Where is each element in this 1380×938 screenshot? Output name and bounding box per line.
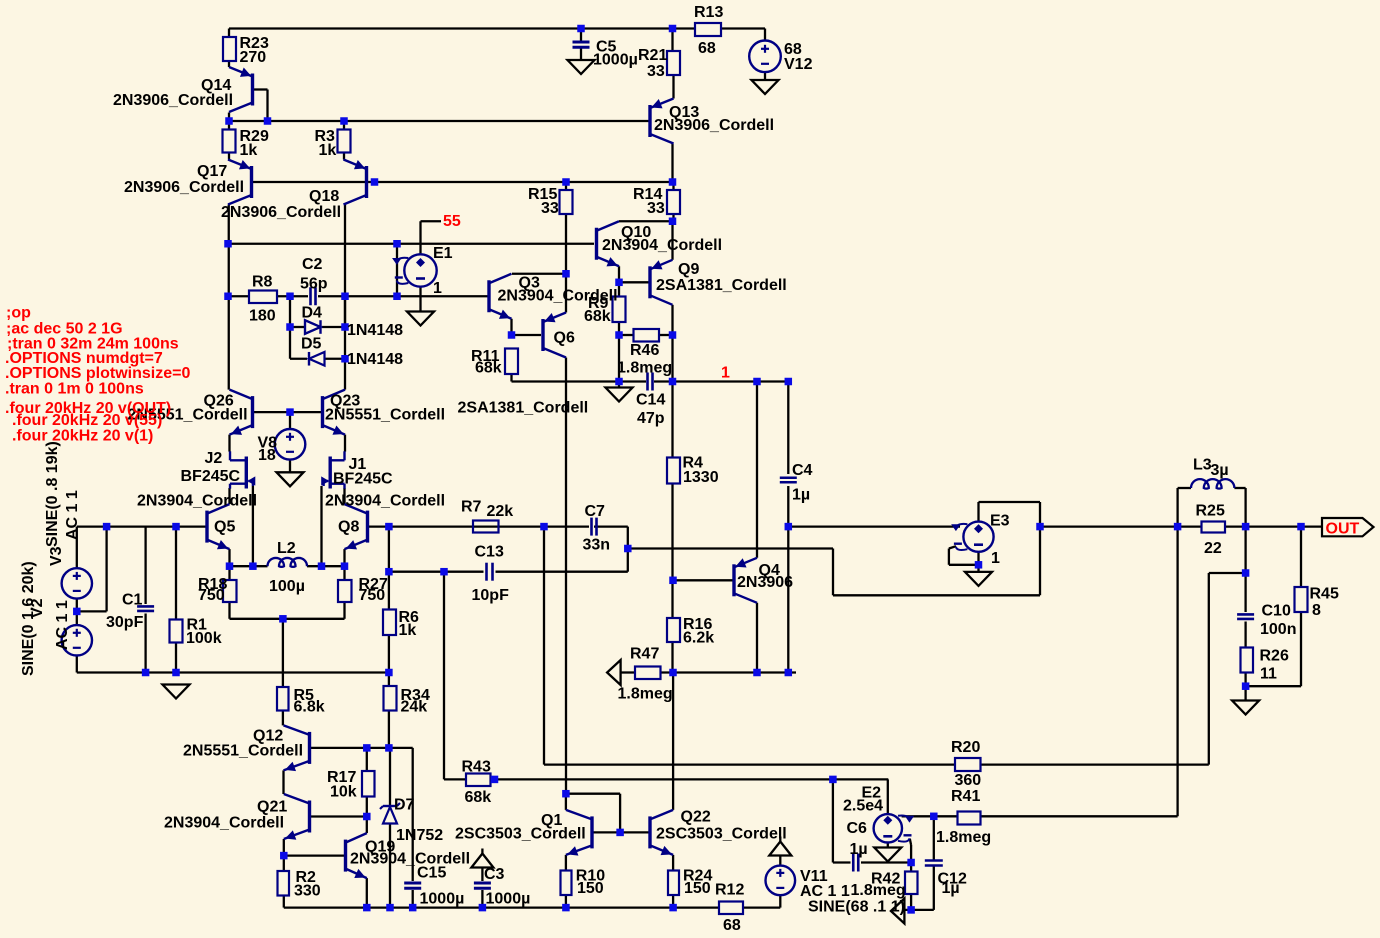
svg-text:BF245C: BF245C: [181, 468, 241, 485]
svg-text:2.5e4: 2.5e4: [843, 798, 883, 815]
svg-text:SINE(68 .1 1): SINE(68 .1 1): [808, 899, 905, 916]
svg-text:R20: R20: [951, 739, 980, 756]
svg-text:R41: R41: [951, 788, 980, 805]
svg-text:55: 55: [443, 213, 461, 230]
svg-text:33: 33: [647, 200, 665, 217]
svg-text:68: 68: [698, 40, 716, 57]
svg-text:1.8meg: 1.8meg: [618, 686, 673, 703]
svg-text:1: 1: [721, 365, 730, 382]
svg-text:1µ: 1µ: [850, 841, 868, 858]
svg-text:22k: 22k: [487, 503, 514, 520]
svg-text:.four 20kHz 20 v(55): .four 20kHz 20 v(55): [12, 412, 162, 429]
svg-text:33n: 33n: [583, 537, 611, 554]
svg-text:2N5551_Cordell: 2N5551_Cordell: [183, 743, 303, 760]
svg-text:68: 68: [723, 917, 741, 934]
svg-text:Q9: Q9: [678, 261, 699, 278]
svg-text:C10: C10: [1262, 603, 1291, 620]
svg-text:D7: D7: [394, 797, 415, 814]
svg-text:2N3904_Cordell: 2N3904_Cordell: [164, 815, 284, 832]
svg-text:R45: R45: [1310, 586, 1339, 603]
svg-text:1N4148: 1N4148: [347, 351, 403, 368]
svg-text:C13: C13: [475, 544, 504, 561]
svg-text:C3: C3: [484, 866, 505, 883]
svg-text:R12: R12: [715, 882, 744, 899]
svg-text:2N3904_Cordell: 2N3904_Cordell: [350, 851, 470, 868]
svg-text:68k: 68k: [475, 360, 502, 377]
svg-text:11: 11: [1260, 666, 1277, 683]
svg-text:47p: 47p: [637, 410, 665, 427]
svg-text:2N3904_Cordell: 2N3904_Cordell: [602, 237, 722, 254]
svg-text:10pF: 10pF: [472, 587, 510, 604]
svg-text:180: 180: [249, 308, 276, 325]
svg-text:33: 33: [541, 200, 559, 217]
svg-text:R21: R21: [638, 47, 667, 64]
svg-text:1µ: 1µ: [942, 880, 960, 897]
svg-text:L2: L2: [277, 540, 296, 557]
svg-text:.tran 0 1m 0 100ns: .tran 0 1m 0 100ns: [5, 381, 144, 398]
svg-text:2N3906_Cordell: 2N3906_Cordell: [221, 204, 341, 221]
svg-text:2N3904_Cordell: 2N3904_Cordell: [137, 493, 257, 510]
svg-text:24k: 24k: [401, 699, 428, 716]
svg-text:1000µ: 1000µ: [486, 891, 531, 908]
svg-text:;op: ;op: [6, 305, 31, 322]
svg-text:2N3906_Cordell: 2N3906_Cordell: [124, 179, 244, 196]
svg-text:8: 8: [1312, 602, 1321, 619]
svg-text:C1: C1: [122, 592, 143, 609]
svg-text:2SC3503_Cordell: 2SC3503_Cordell: [656, 826, 787, 843]
svg-text:1.8meg: 1.8meg: [851, 882, 906, 899]
svg-text:C6: C6: [847, 820, 868, 837]
svg-text:33: 33: [647, 63, 665, 80]
svg-text:1N752: 1N752: [396, 827, 443, 844]
svg-text:J2: J2: [205, 450, 223, 467]
svg-text:1000µ: 1000µ: [420, 891, 465, 908]
svg-text:Q21: Q21: [257, 799, 287, 816]
svg-text:V12: V12: [784, 56, 813, 73]
svg-text:R13: R13: [694, 4, 723, 21]
svg-text:D4: D4: [302, 305, 323, 322]
svg-text:1.8meg: 1.8meg: [936, 829, 991, 846]
svg-text:360: 360: [955, 772, 982, 789]
svg-text:1.8meg: 1.8meg: [617, 360, 672, 377]
svg-text:1: 1: [433, 280, 442, 297]
svg-text:100k: 100k: [186, 630, 222, 647]
svg-text:Q6: Q6: [554, 330, 575, 347]
svg-text:1k: 1k: [240, 142, 258, 159]
svg-text:100µ: 100µ: [269, 578, 305, 595]
svg-text:150: 150: [577, 880, 604, 897]
svg-text:750: 750: [198, 587, 225, 604]
svg-text:2SA1381_Cordell: 2SA1381_Cordell: [458, 400, 589, 417]
svg-text:R8: R8: [252, 274, 273, 291]
svg-text:OUT: OUT: [1326, 521, 1360, 538]
svg-text:3µ: 3µ: [1211, 462, 1229, 479]
svg-text:AC 1 1: AC 1 1: [800, 883, 850, 900]
svg-text:10k: 10k: [330, 784, 357, 801]
svg-text:R43: R43: [462, 759, 491, 776]
svg-text:2N3904_Cordell: 2N3904_Cordell: [325, 493, 445, 510]
svg-text:L3: L3: [1193, 457, 1212, 474]
svg-text:68k: 68k: [584, 308, 611, 325]
svg-text:330: 330: [294, 883, 321, 900]
svg-text:C2: C2: [302, 256, 323, 273]
svg-text:BF245C: BF245C: [333, 471, 393, 488]
svg-text:V3: V3: [48, 546, 65, 566]
svg-text:Q18: Q18: [309, 188, 339, 205]
svg-text:R7: R7: [461, 499, 482, 516]
svg-text:150: 150: [684, 880, 711, 897]
svg-text:E3: E3: [990, 513, 1010, 530]
svg-text:18: 18: [258, 447, 276, 464]
svg-text:22: 22: [1204, 540, 1222, 557]
svg-text:R46: R46: [630, 342, 659, 359]
svg-text:56p: 56p: [300, 276, 328, 293]
svg-text:1N4148: 1N4148: [347, 322, 403, 339]
svg-text:2N3906: 2N3906: [737, 574, 793, 591]
svg-text:2N3906_Cordell: 2N3906_Cordell: [113, 92, 233, 109]
svg-text:68k: 68k: [465, 789, 492, 806]
svg-text:2N3906_Cordell: 2N3906_Cordell: [654, 117, 774, 134]
svg-text:C15: C15: [417, 865, 446, 882]
svg-text:1000µ: 1000µ: [593, 52, 638, 69]
svg-text:R47: R47: [630, 646, 659, 663]
svg-text:E1: E1: [433, 245, 453, 262]
svg-text:R25: R25: [1196, 503, 1225, 520]
svg-text:30pF: 30pF: [106, 614, 144, 631]
svg-text:2N5551_Cordell: 2N5551_Cordell: [325, 407, 445, 424]
svg-text:C14: C14: [636, 392, 665, 409]
svg-text:750: 750: [359, 587, 386, 604]
svg-text:1k: 1k: [399, 622, 417, 639]
svg-text:Q5: Q5: [214, 519, 235, 536]
svg-text:R26: R26: [1260, 648, 1289, 665]
svg-text:D5: D5: [301, 336, 322, 353]
svg-text:2SA1381_Cordell: 2SA1381_Cordell: [656, 277, 787, 294]
svg-text:V2: V2: [29, 598, 46, 618]
svg-text:100n: 100n: [1260, 621, 1296, 638]
svg-text:.OPTIONS plotwinsize=0: .OPTIONS plotwinsize=0: [5, 365, 190, 382]
svg-text:1µ: 1µ: [792, 487, 810, 504]
svg-text:1330: 1330: [683, 469, 719, 486]
svg-text:C7: C7: [585, 503, 606, 520]
svg-text:C4: C4: [792, 462, 813, 479]
svg-text:Q8: Q8: [338, 519, 359, 536]
svg-text:1: 1: [991, 550, 1000, 567]
svg-text:270: 270: [240, 49, 267, 66]
svg-text:Q22: Q22: [681, 809, 711, 826]
svg-text:6.8k: 6.8k: [294, 699, 325, 716]
svg-text:1k: 1k: [319, 142, 337, 159]
svg-text:Q17: Q17: [197, 163, 227, 180]
svg-text:2SC3503_Cordell: 2SC3503_Cordell: [455, 826, 586, 843]
svg-text:AC 1 1: AC 1 1: [54, 600, 71, 650]
svg-text:.four 20kHz 20 v(1): .four 20kHz 20 v(1): [12, 428, 153, 445]
svg-text:6.2k: 6.2k: [683, 630, 714, 647]
svg-text:SINE(0 .8 19k): SINE(0 .8 19k): [44, 441, 61, 547]
svg-text:AC 1 1: AC 1 1: [64, 490, 81, 540]
